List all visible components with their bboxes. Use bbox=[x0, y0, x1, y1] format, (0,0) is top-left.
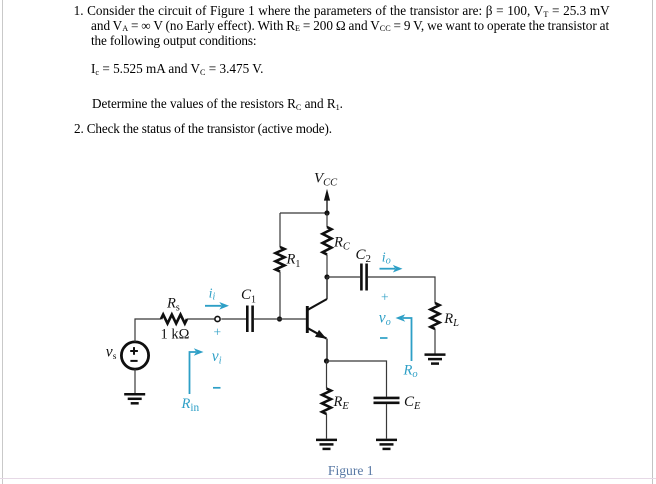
source vs bbox=[106, 342, 149, 369]
svg-text:VCC: VCC bbox=[314, 171, 338, 189]
svg-text:io: io bbox=[382, 250, 391, 266]
wire C2 to output corner bbox=[368, 277, 435, 303]
wire Rs to node bbox=[187, 318, 215, 320]
svg-text:1 kΩ: 1 kΩ bbox=[161, 326, 190, 342]
svg-text:RL: RL bbox=[443, 311, 459, 329]
capacitor C1 bbox=[241, 287, 256, 332]
power VCC label bbox=[314, 171, 338, 189]
svg-text:+: + bbox=[214, 325, 222, 340]
wire top rail bbox=[280, 212, 327, 214]
arrow Rin bbox=[190, 348, 204, 394]
wire R1 top bbox=[279, 213, 281, 247]
label vi minus bbox=[213, 387, 221, 389]
resistor RL bbox=[431, 303, 460, 329]
resistor RE bbox=[322, 389, 349, 415]
wire vs to ground bbox=[134, 369, 136, 393]
ground under vs bbox=[124, 394, 145, 403]
wire RL to ground bbox=[434, 329, 436, 354]
svg-text:Rs: Rs bbox=[166, 296, 180, 314]
wire RC top bbox=[326, 213, 328, 227]
node input (open) bbox=[215, 316, 220, 321]
svg-text:C1: C1 bbox=[241, 287, 256, 306]
capacitor C2 bbox=[356, 247, 372, 291]
arrow Ro bbox=[396, 314, 412, 361]
resistor RC bbox=[323, 227, 351, 255]
ground under CE bbox=[376, 440, 397, 449]
svg-text:+: + bbox=[381, 290, 389, 305]
wire collector to C2 bbox=[327, 276, 360, 278]
wire RC bottom bbox=[326, 255, 328, 278]
svg-text:Ro: Ro bbox=[403, 362, 418, 380]
power VCC arrow bbox=[324, 189, 330, 213]
node junction collector bbox=[324, 274, 329, 279]
resistor Rs bbox=[161, 296, 190, 343]
svg-text:vs: vs bbox=[106, 344, 117, 362]
node junction emitter bbox=[324, 358, 329, 363]
wire node to C1 bbox=[221, 318, 246, 320]
svg-text:vo: vo bbox=[379, 310, 391, 329]
resistor R1 bbox=[276, 247, 301, 272]
wire RE to ground bbox=[326, 414, 328, 439]
svg-text:C2: C2 bbox=[356, 247, 372, 265]
capacitor CE bbox=[374, 394, 422, 412]
svg-text:R1: R1 bbox=[286, 252, 301, 271]
wire emitter to CE bbox=[327, 361, 387, 397]
wire C1 to base bbox=[254, 318, 306, 320]
svg-text:ii: ii bbox=[209, 286, 216, 302]
label io current bbox=[380, 250, 403, 272]
svg-text:RC: RC bbox=[333, 235, 351, 253]
paragraph text bbox=[74, 3, 610, 19]
label vo minus bbox=[380, 337, 388, 339]
wire vs to input rail bbox=[135, 319, 161, 342]
label ii current bbox=[205, 286, 229, 309]
svg-text:RE: RE bbox=[333, 394, 350, 412]
node junction top bbox=[324, 210, 329, 215]
svg-text:CE: CE bbox=[404, 394, 421, 412]
svg-text:Figure 1: Figure 1 bbox=[328, 463, 374, 478]
ground under RL bbox=[425, 355, 446, 364]
ground under RE bbox=[316, 440, 337, 449]
node junction base bbox=[277, 316, 282, 321]
wire R1 bottom bbox=[279, 272, 281, 320]
wire CE to ground bbox=[386, 404, 388, 439]
transistor Q1 bbox=[307, 277, 327, 361]
svg-text:Rin: Rin bbox=[181, 396, 200, 414]
wire emitter to RE bbox=[326, 361, 328, 389]
svg-text:vi: vi bbox=[212, 348, 222, 367]
